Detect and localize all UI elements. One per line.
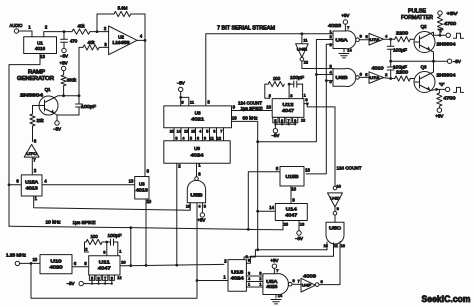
wire U8 pin 9 to U12 pin 10 [232,105,273,111]
label 1us spike upper [241,106,263,111]
wire audio to U1 pin 1 [28,24,32,36]
wire Q1 emitter to minus 5V [55,114,80,121]
svg-text:U13: U13 [231,270,244,275]
svg-text:Q2: Q2 [421,24,427,29]
transistor Q3 2N3904 [414,65,456,93]
terminal 1.28MHz [6,253,31,266]
svg-text:9: 9 [111,276,113,280]
resistor 22k [30,114,44,142]
svg-text:LM458: LM458 [113,40,131,45]
U4D output bubble [333,206,339,215]
svg-text:U15A: U15A [25,180,38,185]
wire U1 pin 13 down-left [9,54,45,227]
U4D input bubble [333,183,341,189]
U5C pin stubs [323,241,344,283]
inverter U7C [24,139,39,158]
svg-text:U7A: U7A [370,76,381,80]
svg-text:12: 12 [217,136,221,140]
wire U4D to U5C [334,215,336,222]
label pulse formatter [401,8,433,20]
svg-text:4700: 4700 [444,21,457,26]
U4F output bubble [315,279,323,286]
IC U8 4021 [164,106,232,128]
IC U15A 4013 [21,175,42,196]
svg-text:4047: 4047 [98,266,112,271]
resistor 4700 bottom [437,89,456,108]
svg-text:−5V: −5V [60,53,68,58]
resistor 2200 bottom [391,70,415,82]
svg-text:3: 3 [248,271,250,275]
label 4009 [303,273,317,278]
svg-text:13: 13 [186,204,190,208]
minus5V below U12 [271,129,279,139]
svg-text:U5C: U5C [329,226,341,231]
svg-text:80 kHz: 80 kHz [243,116,258,121]
svg-text:U12: U12 [283,102,295,107]
inverter U4E [296,44,309,58]
wire node A to R 40k [64,31,72,33]
svg-text:−5V: −5V [453,59,461,64]
capacitor 470 [61,32,78,49]
svg-text:4047: 4047 [285,213,298,218]
svg-text:4: 4 [199,129,201,133]
label 4010 [372,65,385,70]
ground below U5A [271,293,283,304]
svg-text:+5V: +5V [435,114,443,119]
svg-text:8: 8 [259,271,261,275]
svg-text:4024: 4024 [191,152,205,157]
wire serial stream from U8 pin 3 [206,34,333,106]
IC U3 4013 [135,168,150,199]
svg-text:14: 14 [278,293,283,298]
svg-text:13: 13 [184,129,188,133]
U4E output bubble [300,57,309,64]
svg-text:−5V: −5V [271,133,279,138]
resistor 330k [61,71,77,96]
wire U6A pin2 vertical [256,34,333,143]
svg-text:10 kHz: 10 kHz [46,220,61,225]
svg-text:U11: U11 [99,259,111,264]
svg-text:U10: U10 [51,258,63,263]
wire left rail to U15A pin 6 [8,179,22,187]
svg-text:4016: 4016 [35,46,46,51]
svg-text:330k: 330k [67,78,77,83]
svg-text:40k: 40k [77,24,85,29]
wire Q2 emitter down [431,51,434,62]
resistor 4700 top [437,15,456,35]
svg-text:15: 15 [284,222,289,227]
svg-text:U3: U3 [139,181,145,186]
svg-text:14: 14 [177,129,181,133]
svg-text:1: 1 [259,282,261,286]
svg-text:U5B: U5B [190,192,202,197]
op-amp U2 LM458 [109,26,137,55]
svg-text:U8: U8 [195,110,201,115]
svg-text:PULSE: PULSE [408,8,427,14]
IC U12 4047 [272,99,304,118]
inverter U4F 4009 [301,278,316,292]
resistor 2200 top [395,31,415,42]
svg-text:7: 7 [288,119,290,123]
nand U5B bubble [195,171,202,180]
svg-text:100: 100 [90,234,98,239]
svg-text:2N3904: 2N3904 [20,92,44,97]
svg-text:U4E: U4E [297,46,307,51]
wire U8 pin 8 11 loop [181,97,195,106]
wire U5B pin 4 down to U13 pin 1 [196,209,199,298]
U11 RC loop mid [103,242,107,256]
wire Q1 collector to node C [55,94,81,97]
resistor 100 U11 [86,234,102,245]
svg-text:4: 4 [198,204,200,208]
U9 top pin labels [175,136,221,140]
svg-text:100pF: 100pF [108,233,122,238]
svg-text:5: 5 [206,129,208,133]
node B junction op-amp input [96,30,99,33]
svg-text:11: 11 [334,244,338,248]
svg-text:SeekIC.com: SeekIC.com [422,293,471,304]
svg-text:+5V: +5V [447,11,458,16]
svg-text:6: 6 [213,129,215,133]
wire U14 pin13 to minus5V [295,221,305,242]
svg-text:100pF: 100pF [81,104,96,109]
wire U14 pin15 down-left [283,221,289,230]
wire U7A bottom out [384,72,391,79]
svg-text:FORMATTER: FORMATTER [401,15,433,21]
wire 1.28MHz loop [31,263,197,298]
svg-text:12: 12 [304,60,309,65]
U11 RC loop right [118,242,122,256]
svg-text:4021: 4021 [191,117,205,122]
junction serial to U4E [301,32,309,43]
svg-text:13: 13 [40,54,45,59]
resistor 40k lower [83,40,109,50]
minus5V left of U11 [67,281,84,286]
svg-text:1: 1 [248,282,250,286]
wire Q1 base to 22k [33,106,40,115]
svg-text:4009: 4009 [303,273,317,278]
minus 5V below Q1 [53,121,61,132]
svg-text:14: 14 [269,205,274,210]
svg-text:−5V: −5V [177,81,185,86]
watermark SeekIC.com [422,293,471,304]
svg-text:4: 4 [182,136,184,140]
svg-text:13: 13 [300,222,305,227]
wire U9 pin 2 down [175,163,181,266]
terminal one output [446,33,464,38]
svg-text:5: 5 [190,136,192,140]
wire U3 pin 10 down [145,199,152,267]
svg-text:RAMP: RAMP [28,70,46,76]
transistor Q1 2N3904 [20,87,58,115]
nand U5C [326,222,344,244]
plus5V above U5A [270,258,279,274]
capacitor 100pF U12 [288,75,305,87]
svg-text:+5V: +5V [60,61,68,66]
svg-text:+5V: +5V [197,217,205,222]
wires U13 to U5A [246,271,263,287]
IC U15B [280,167,304,187]
svg-text:1.28 MHz: 1.28 MHz [6,253,26,258]
wire U14 pin14 [256,205,275,212]
svg-text:"1": "1" [438,28,444,33]
U12 bottom pins [273,117,305,125]
svg-text:3: 3 [175,136,177,140]
svg-text:1μs SPIKE: 1μs SPIKE [73,220,96,225]
svg-text:−5V: −5V [53,127,61,132]
svg-text:10: 10 [32,257,37,262]
svg-text:U6B: U6B [336,75,348,80]
plus5V top right [438,11,458,16]
nand U6B [333,68,356,86]
svg-text:10: 10 [336,183,341,188]
svg-text:GENERATOR: GENERATOR [17,76,54,82]
resistor 100 U12 [268,76,284,87]
label 4023 top [328,23,342,28]
wire U6B pin4 stub [315,69,333,76]
wire U15A pin 4 to U3 pin 13 [42,179,135,185]
wire U12 pin 8 out [304,97,309,107]
svg-text:U4D: U4D [330,195,340,200]
label 124 count lower [337,166,362,171]
wire 4009 to U5C [319,284,340,285]
svg-text:9: 9 [204,136,206,140]
wire U13 pin6 up [244,248,327,259]
wire U15B pin 13 [305,167,310,172]
IC U10 4020 [40,255,72,274]
U12 RC loop left [265,84,272,99]
svg-text:5: 5 [204,204,206,208]
svg-text:4023: 4023 [266,284,278,289]
svg-text:2N3904: 2N3904 [437,72,457,77]
feedback wire [97,14,145,40]
U5A output bubble [288,278,301,286]
svg-text:6: 6 [281,119,283,123]
svg-text:AUDIO: AUDIO [10,23,23,28]
wire U8 pin 10 80kHz [232,115,258,249]
wire 10kHz spike line [9,220,283,230]
svg-text:22k: 22k [36,118,44,123]
wire Q3 emitter to zero output [431,82,446,91]
wire U1 pin 2 to node A [44,24,66,36]
transistor Q2 2N3904 [414,24,456,53]
svg-text:10: 10 [121,260,126,265]
wire U11 pin 10 output [120,260,224,266]
svg-text:+5V: +5V [341,13,349,18]
terminal zero output [445,87,463,92]
wire node B to op-amp pin 2 [97,26,109,32]
label ramp generator [17,70,54,83]
label 7 bit serial stream [217,25,275,31]
svg-text:4013: 4013 [136,187,149,192]
wire U13 pin1 [197,274,228,280]
IC U1 4016 [24,37,57,54]
svg-text:10: 10 [291,187,296,192]
svg-text:10: 10 [146,199,151,204]
svg-text:2: 2 [259,277,261,281]
svg-text:10: 10 [232,115,237,120]
wire U6A pin3 vertical [306,42,333,174]
resistor 5.6M [114,6,131,17]
plus5V below U5B [197,213,205,223]
svg-text:1μs SPIKE: 1μs SPIKE [241,106,263,111]
wire op-amp output down to U3 pin 8 [144,40,146,176]
U6A output bubble [356,34,369,42]
svg-text:5.6M: 5.6M [118,6,128,11]
svg-text:100pF: 100pF [290,75,304,80]
svg-text:12: 12 [301,118,305,122]
svg-text:13: 13 [305,167,310,172]
svg-text:+5V: +5V [270,258,278,263]
svg-text:Q1: Q1 [45,87,51,92]
svg-text:4024: 4024 [231,276,245,281]
minus 5V below cap 470 [60,48,68,58]
IC U9 4024 [164,141,230,163]
svg-text:4047: 4047 [282,108,295,113]
capacitor 100pF ramp [76,96,97,115]
svg-text:2200: 2200 [396,31,409,36]
wire U13 pin9 [246,256,333,263]
svg-text:5: 5 [274,119,276,123]
svg-text:13: 13 [129,179,134,184]
wire U4E to U6B pin3 [302,61,333,69]
svg-text:11: 11 [210,136,214,140]
buffer U7A bottom [369,72,384,84]
audio input terminal [10,23,33,33]
nand U5A 4023 [263,274,289,295]
svg-text:15: 15 [191,129,195,133]
svg-text:U4F: U4F [302,284,312,288]
svg-text:4020: 4020 [50,265,64,270]
U6B output bubble [356,72,369,80]
junction 1.28MHz [30,257,40,265]
wire U15B pin10 to U14 pin9 [291,186,297,204]
U12 RC loop right [303,84,307,99]
svg-text:10: 10 [170,129,174,133]
wire U15B pin 8 left [247,166,280,231]
svg-text:100μF: 100μF [393,48,407,53]
svg-text:2200: 2200 [396,70,409,75]
svg-text:7 BIT SERIAL STREAM: 7 BIT SERIAL STREAM [217,25,275,31]
inverter U4D [328,193,343,207]
wire U12 pin8 to U4D vertical [307,107,335,186]
junction 10kHz to U11 area [129,226,132,267]
wire U7A out [384,33,395,40]
svg-text:U2: U2 [118,35,124,40]
svg-text:7: 7 [104,276,106,280]
svg-text:13: 13 [341,244,345,248]
U5B pin stubs [186,203,206,213]
ground below U6A [339,47,352,58]
svg-text:124 COUNT: 124 COUNT [337,166,362,171]
resistor 40k upper [72,24,97,35]
minus5V mid rail [389,59,461,64]
U8 to U9 bus wires [174,128,224,141]
svg-text:−5V: −5V [67,281,75,286]
IC U13 4024 [228,260,246,292]
plus 5V above 330k [60,61,68,71]
svg-text:2N3904: 2N3904 [437,41,457,46]
nand U5B [187,180,205,202]
buffer U7A top [369,33,384,45]
svg-text:12: 12 [117,276,121,280]
U8 bottom pin labels [170,129,223,133]
svg-text:5: 5 [91,276,93,280]
wire Q3 collector up [431,61,434,73]
wire serial into U6A pin1 [329,29,332,34]
capacitor 100uF upper [387,39,407,61]
capacitor 100pF U11 [102,233,122,245]
IC U14 4047 [275,204,307,221]
svg-text:9: 9 [294,119,296,123]
wire Q2 collector to one output [431,28,447,37]
U11 RC loop left [85,242,89,252]
U11 bottom rail [83,283,111,285]
svg-text:40k: 40k [87,40,95,45]
op-amp output wire [137,34,146,42]
svg-text:6: 6 [98,276,100,280]
svg-text:10: 10 [266,105,271,110]
svg-text:U6A: U6A [336,38,348,43]
wire U10 pin6 to U11 pin8 [72,261,89,267]
svg-text:U1: U1 [37,41,43,46]
wire U6B pin5 stub [325,79,333,84]
svg-text:U7A: U7A [370,38,381,42]
label 80kHz [243,116,258,121]
IC U11 4047 [89,256,120,275]
svg-text:−5V: −5V [295,236,303,241]
svg-text:U14: U14 [286,206,298,211]
svg-text:14: 14 [347,47,352,52]
capacitor 100uF lower [387,61,407,80]
svg-text:10: 10 [323,244,327,248]
wire U15A pin 1 to U5B pin 13 [34,196,191,210]
svg-text:U7C: U7C [26,151,37,156]
svg-text:4013: 4013 [26,186,39,191]
wire U9 pin 1 to U5B [197,162,202,176]
label 124 count upper [238,100,262,105]
svg-text:4700: 4700 [443,95,456,100]
wire into U13 pin 2 [224,258,227,263]
svg-text:100: 100 [273,76,281,81]
svg-text:124 COUNT: 124 COUNT [238,100,262,105]
plus5V bottom right [435,108,443,119]
svg-text:4010: 4010 [372,65,385,70]
svg-text:"0": "0" [439,82,445,87]
svg-text:6: 6 [197,136,199,140]
svg-text:4: 4 [248,277,250,281]
wire 40k lower to ramp node [79,47,83,95]
minus 5V above U8 [177,81,185,106]
svg-text:470: 470 [70,39,78,44]
U12 bottom rail [275,124,295,128]
wire U7C to U15A pin 2 [32,157,37,175]
svg-text:7: 7 [220,129,222,133]
svg-text:4023: 4023 [328,23,342,28]
U11 bottom pins [89,275,121,285]
svg-text:Q3: Q3 [421,65,427,70]
svg-text:U9: U9 [194,146,200,151]
nand U6A [333,31,356,49]
U12 RC loop mid [289,84,293,99]
svg-text:U15B: U15B [286,174,299,179]
plus5V above U6A [341,13,350,31]
